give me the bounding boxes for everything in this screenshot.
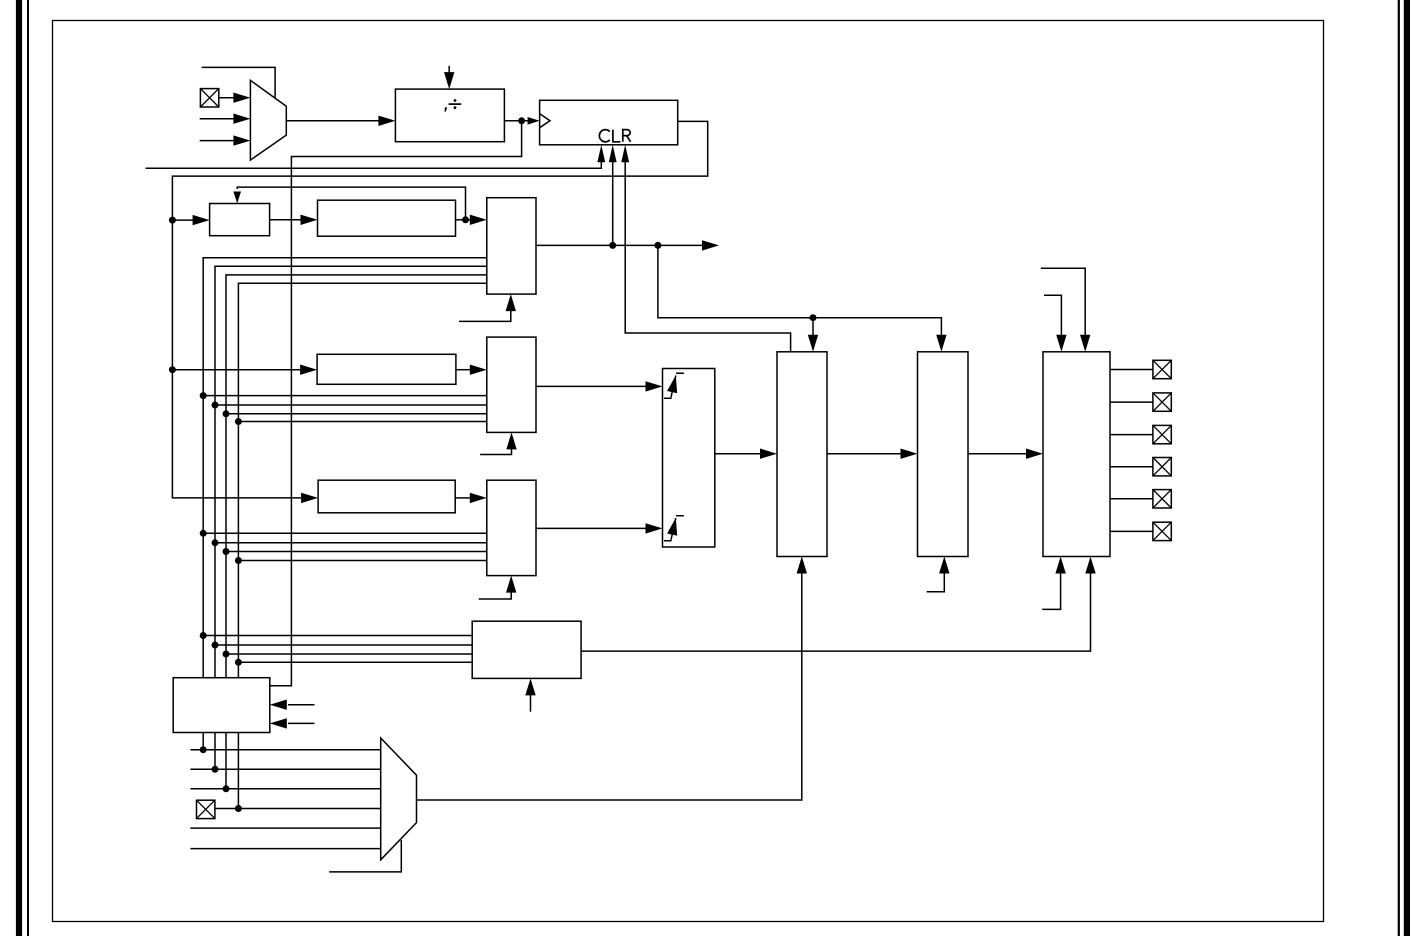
pin X3: [1153, 360, 1171, 378]
wire R1 to R2: [270, 219, 301, 221]
page border left thick bar: [16, 0, 22, 936]
wire A3 to T3: [203, 532, 487, 534]
wire B5 out 3: [1110, 434, 1153, 436]
block B5: [1043, 352, 1110, 557]
wire X2 to MUX2 input 4: [215, 808, 381, 810]
node A4: [200, 632, 207, 639]
wire B2 to T2: [215, 404, 487, 406]
wire B4 clock hook: [927, 573, 945, 592]
wire N3 to R3: [172, 369, 300, 371]
node N5: [609, 242, 616, 249]
node C2: [223, 410, 230, 417]
wire R2 feedback to R1 top: [237, 187, 465, 220]
wire MUX1 output to U1: [286, 120, 379, 122]
node A3: [200, 530, 207, 537]
wire T1 clock hook: [459, 311, 511, 321]
node D5: [235, 805, 242, 812]
block R4: [318, 480, 455, 513]
wire bus1 below BL: [214, 733, 216, 770]
block B3: [777, 352, 827, 557]
wire N1 to BL block: [270, 121, 522, 686]
block R3: [317, 354, 456, 384]
wire bus3 to T1: [238, 283, 486, 678]
wire MUX2 input 5: [190, 827, 380, 829]
block U1 prescaler divider: [395, 89, 504, 142]
wire N5 to U2 CLR b: [612, 161, 614, 245]
wire BL input b: [288, 722, 315, 724]
wire B3 to B4: [827, 453, 901, 455]
wire bus2 to T1: [226, 275, 487, 678]
wire BL input a: [288, 704, 315, 706]
node D4: [235, 659, 242, 666]
node C3: [223, 548, 230, 555]
wire MUX2 input 2: [190, 768, 380, 770]
wire U1 top select input: [448, 66, 450, 75]
pin X2: [197, 800, 215, 818]
wire B5 out 1: [1110, 369, 1153, 371]
page border left thin line: [27, 0, 29, 936]
block U2 counter CLR: [540, 100, 678, 145]
wire R5 to B5 clock: [581, 573, 1090, 651]
wire bus0 below BL: [202, 733, 204, 750]
pin X4: [1153, 393, 1171, 411]
wire R3 to T2: [456, 369, 470, 371]
wire U1 output to U2 clock: [504, 120, 528, 122]
wire bus2 below BL: [225, 733, 227, 789]
node C4: [223, 651, 230, 658]
wire D2 to T2: [238, 421, 486, 423]
edge symbol 2: [664, 516, 684, 541]
wire B3n to T3: [215, 542, 487, 544]
wire R4 to T3: [455, 497, 470, 499]
wire C2 to T2: [226, 413, 487, 415]
wire T2 to ED: [536, 385, 646, 387]
wire ED to B3: [715, 453, 760, 455]
wire C4 to R5: [226, 653, 472, 655]
page border right thin line: [1398, 0, 1400, 936]
pin X6: [1153, 458, 1171, 476]
mux MUX1: [250, 80, 286, 160]
block R1: [210, 204, 270, 236]
wire B5 clock hook: [1042, 573, 1060, 609]
edge symbol 1: [664, 373, 684, 398]
block R5: [472, 621, 581, 678]
wire B5 top input b: [1044, 295, 1061, 336]
wire B5 out 5: [1110, 498, 1153, 500]
node N3: [169, 366, 176, 373]
wire MUX1 input 1: [200, 118, 235, 120]
wire C3 to T3: [226, 551, 487, 553]
wire T3 clock hook: [479, 592, 512, 599]
page border right thick bar: [1404, 0, 1410, 936]
node N6: [654, 242, 661, 249]
block T2: [487, 337, 536, 432]
node B3n: [212, 539, 219, 546]
pin X1: [200, 89, 218, 107]
block B4: [918, 352, 969, 557]
wire D4 to R5: [238, 661, 472, 663]
wire N6 to B4 top: [658, 245, 942, 336]
label CLR: [599, 130, 630, 142]
wire MUX2 select: [329, 840, 401, 872]
node B4n: [212, 642, 219, 649]
wire T3 to ED: [536, 527, 646, 529]
wire MUX2 input 1: [190, 749, 380, 751]
block T3: [487, 480, 536, 575]
block T1: [487, 198, 536, 294]
wire B4n to R5: [215, 644, 472, 646]
wire MUX1 input 2: [200, 140, 235, 142]
pin X5: [1153, 425, 1171, 443]
node N4: [462, 216, 469, 223]
wire T2 clock hook: [480, 449, 511, 455]
wire B5 out 4: [1110, 466, 1153, 468]
pin X7: [1153, 490, 1171, 508]
wire bus3 below BL: [237, 733, 239, 809]
wire A2 to T2: [203, 395, 487, 397]
block BL: [173, 678, 270, 733]
wire MUX2 input 3: [190, 788, 380, 790]
node N1: [518, 117, 525, 124]
wire B5 top input a: [1041, 268, 1085, 336]
wire X1 to MUX1 input 0: [219, 97, 235, 99]
wire CLR input a: [146, 161, 602, 168]
mux MUX2: [381, 738, 417, 860]
wire R2 to T1: [456, 219, 471, 221]
node D2: [235, 418, 242, 425]
wire D3 to T3: [238, 560, 486, 562]
wire N2 to R1: [172, 219, 193, 221]
wire MUX1 top select: [202, 67, 275, 98]
block ED edge detector: [663, 369, 715, 548]
node N7: [810, 314, 817, 321]
pin X8: [1153, 522, 1171, 540]
node D3: [235, 557, 242, 564]
node N2: [169, 217, 176, 224]
node A2: [200, 392, 207, 399]
wire N7 to B3 top: [812, 318, 814, 336]
label U1 divide: [445, 99, 462, 112]
block R2: [318, 200, 456, 236]
node C5: [223, 785, 230, 792]
node B2: [212, 402, 219, 409]
wire T1 output: [536, 244, 703, 246]
wire R5 bottom stem: [530, 695, 532, 712]
wire A4 to R5: [203, 635, 472, 637]
wire B5 out 6: [1110, 530, 1153, 532]
wire MUX2 input 6: [190, 848, 380, 850]
wire U2 output feedback to left rail: [172, 121, 707, 498]
wire U2 CLR c from B3 top rail: [625, 161, 790, 352]
wire bus0 to T1: [203, 258, 487, 678]
node B5n: [212, 766, 219, 773]
wire B4 to B5: [968, 453, 1026, 455]
wire bus1 to T1: [215, 266, 487, 678]
wire B5 out 2: [1110, 401, 1153, 403]
node A5: [200, 746, 207, 753]
wire MUX2 output to B3 clock: [417, 573, 802, 800]
